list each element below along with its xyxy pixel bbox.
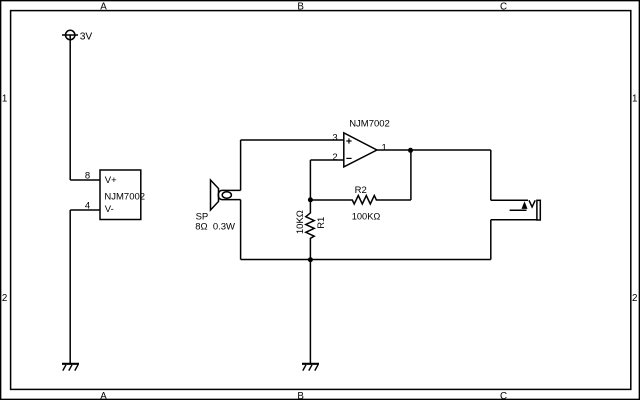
svg-text:A: A xyxy=(100,1,107,12)
svg-text:C: C xyxy=(500,1,507,12)
svg-text:1: 1 xyxy=(382,142,387,153)
svg-text:R2: R2 xyxy=(355,185,367,196)
svg-text:R1: R1 xyxy=(316,217,327,229)
svg-text:3V: 3V xyxy=(80,31,93,42)
svg-text:1: 1 xyxy=(2,93,7,104)
svg-text:100KΩ: 100KΩ xyxy=(352,212,381,222)
svg-text:B: B xyxy=(297,391,304,400)
svg-text:10KΩ: 10KΩ xyxy=(295,210,306,234)
svg-text:8: 8 xyxy=(85,170,90,181)
svg-text:1: 1 xyxy=(632,93,637,104)
svg-text:A: A xyxy=(100,391,107,400)
svg-text:NJM7002: NJM7002 xyxy=(104,192,145,203)
svg-text:B: B xyxy=(297,1,304,12)
svg-text:2: 2 xyxy=(332,152,337,163)
svg-text:C: C xyxy=(500,391,507,400)
svg-text:V+: V+ xyxy=(105,175,117,186)
svg-text:2: 2 xyxy=(632,293,637,304)
svg-text:3: 3 xyxy=(332,132,337,143)
svg-text:4: 4 xyxy=(85,200,90,211)
svg-text:NJM7002: NJM7002 xyxy=(349,119,390,130)
svg-text:2: 2 xyxy=(2,293,7,304)
svg-text:8Ω 0.3W: 8Ω 0.3W xyxy=(195,221,235,232)
svg-text:V-: V- xyxy=(105,204,114,215)
